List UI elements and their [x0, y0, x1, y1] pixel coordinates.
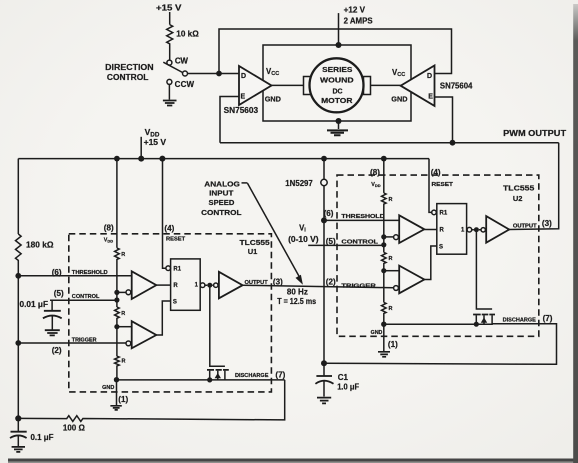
svg-text:THRESHOLD: THRESHOLD: [72, 270, 108, 276]
svg-text:TLC555: TLC555: [503, 184, 534, 193]
svg-text:(5): (5): [54, 289, 64, 298]
svg-text:GND: GND: [102, 385, 114, 391]
svg-text:ANALOG: ANALOG: [204, 180, 240, 189]
svg-text:(4): (4): [431, 168, 441, 177]
svg-text:+12 V: +12 V: [344, 5, 366, 14]
svg-text:R: R: [122, 359, 126, 365]
svg-text:CONTROL: CONTROL: [341, 240, 379, 246]
svg-text:(5): (5): [326, 237, 336, 246]
svg-text:INPUT: INPUT: [209, 189, 234, 198]
svg-text:SERIES: SERIES: [322, 67, 353, 74]
svg-text:GND: GND: [371, 330, 383, 336]
svg-text:R: R: [173, 283, 178, 289]
svg-text:DIRECTION: DIRECTION: [105, 63, 154, 72]
svg-text:R: R: [121, 311, 125, 317]
svg-text:RESET: RESET: [166, 237, 186, 243]
svg-text:S: S: [439, 244, 443, 250]
svg-text:R: R: [440, 228, 445, 234]
svg-text:R1: R1: [440, 211, 448, 217]
svg-text:SN75604: SN75604: [440, 82, 473, 91]
svg-text:CONTROL: CONTROL: [72, 294, 100, 300]
svg-text:OUTPUT: OUTPUT: [245, 280, 269, 286]
svg-text:80 Hz: 80 Hz: [287, 287, 308, 296]
svg-text:+15 V: +15 V: [144, 138, 167, 147]
svg-text:THRESHOLD: THRESHOLD: [341, 214, 385, 220]
svg-text:(2): (2): [326, 277, 336, 286]
svg-text:(3): (3): [542, 219, 552, 228]
svg-text:E: E: [241, 94, 246, 101]
svg-text:R: R: [389, 306, 393, 312]
svg-text:CW: CW: [175, 57, 188, 66]
svg-text:SPEED: SPEED: [209, 198, 235, 207]
svg-text:R: R: [389, 256, 393, 262]
svg-text:(7): (7): [543, 314, 553, 323]
svg-text:0.1 μF: 0.1 μF: [31, 433, 54, 442]
svg-text:(8): (8): [370, 168, 380, 177]
svg-text:(7): (7): [275, 371, 285, 380]
svg-text:WOUND: WOUND: [320, 78, 354, 85]
svg-text:CONTROL: CONTROL: [107, 73, 149, 82]
svg-text:S: S: [173, 299, 177, 305]
svg-text:MOTOR: MOTOR: [321, 98, 352, 105]
svg-text:+15 V: +15 V: [156, 4, 182, 13]
svg-text:TLC555: TLC555: [240, 238, 270, 247]
svg-text:CONTROL: CONTROL: [201, 208, 242, 217]
svg-text:DISCHARGE: DISCHARGE: [503, 317, 537, 323]
svg-text:DISCHARGE: DISCHARGE: [235, 373, 269, 379]
svg-text:U2: U2: [513, 194, 523, 203]
svg-text:180 kΩ: 180 kΩ: [26, 241, 54, 250]
svg-text:E: E: [428, 94, 433, 101]
svg-text:(2): (2): [52, 346, 62, 355]
svg-text:(0-10 V): (0-10 V): [288, 235, 319, 244]
svg-text:U1: U1: [248, 247, 258, 256]
svg-text:T = 12.5 ms: T = 12.5 ms: [277, 297, 316, 306]
svg-text:D: D: [241, 73, 246, 80]
svg-text:DC: DC: [332, 88, 342, 95]
svg-text:(8): (8): [104, 223, 114, 232]
svg-text:CCW: CCW: [175, 80, 195, 89]
svg-text:(1): (1): [388, 340, 398, 349]
svg-text:(4): (4): [164, 224, 174, 233]
svg-text:D: D: [427, 73, 432, 80]
svg-text:TRIGGER: TRIGGER: [341, 283, 376, 289]
svg-text:OUTPUT: OUTPUT: [513, 223, 538, 229]
svg-text:PWM OUTPUT: PWM OUTPUT: [503, 129, 566, 138]
svg-text:0.01 μF: 0.01 μF: [20, 300, 49, 309]
svg-text:(6): (6): [324, 209, 334, 218]
svg-text:TRIGGER: TRIGGER: [72, 337, 97, 343]
svg-text:SN75603: SN75603: [224, 106, 259, 115]
svg-text:100 Ω: 100 Ω: [63, 424, 86, 433]
svg-text:10 kΩ: 10 kΩ: [176, 29, 199, 38]
svg-text:(1): (1): [118, 395, 128, 404]
svg-text:GND: GND: [265, 94, 281, 103]
svg-text:(6): (6): [52, 268, 62, 277]
svg-text:R: R: [121, 252, 125, 258]
svg-text:R: R: [389, 197, 393, 203]
svg-text:(3): (3): [273, 278, 283, 287]
svg-text:GND: GND: [391, 94, 407, 103]
svg-text:RESET: RESET: [432, 182, 455, 188]
svg-text:C1: C1: [338, 373, 349, 382]
svg-text:1.0 μF: 1.0 μF: [337, 382, 359, 391]
svg-text:2 AMPS: 2 AMPS: [344, 17, 374, 26]
svg-text:VDD: VDD: [104, 237, 113, 243]
svg-text:1N5297: 1N5297: [285, 179, 313, 188]
svg-text:R1: R1: [173, 267, 181, 273]
svg-text:VDD: VDD: [371, 182, 380, 188]
